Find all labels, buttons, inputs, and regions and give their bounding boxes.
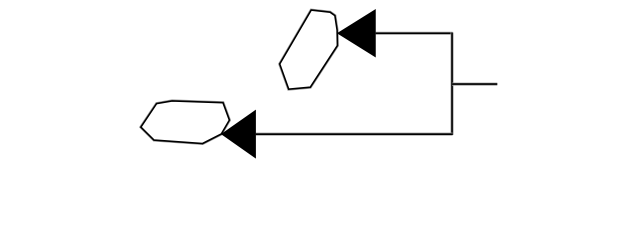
wire from top arrowhead to vertical trunk — [376, 32, 453, 35]
arrowhead to node A — [337, 9, 376, 58]
wire from bottom arrowhead to vertical trunk — [256, 133, 453, 136]
node B (bottom polygon) — [141, 101, 230, 144]
node A (top polygon) — [280, 10, 338, 89]
vertical trunk wire — [451, 33, 454, 135]
arrowhead to node B — [221, 110, 256, 159]
root stub wire — [452, 83, 497, 86]
